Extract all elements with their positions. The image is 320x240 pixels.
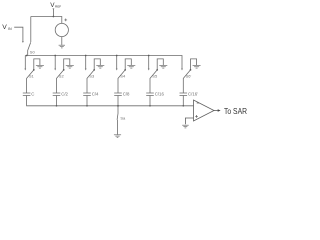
- svg-text:C/8: C/8: [123, 92, 130, 97]
- svg-text:V: V: [2, 24, 7, 31]
- svg-text:Sa: Sa: [120, 116, 126, 121]
- svg-text:S6': S6': [186, 74, 192, 79]
- svg-text:C/16': C/16': [188, 92, 198, 97]
- svg-text:IN: IN: [8, 27, 12, 31]
- svg-text:C/4: C/4: [92, 92, 99, 97]
- svg-text:To SAR: To SAR: [224, 106, 247, 116]
- svg-text:S5: S5: [152, 74, 158, 79]
- svg-text:S3: S3: [89, 74, 95, 79]
- svg-text:S1: S1: [29, 74, 35, 79]
- svg-text:S2: S2: [59, 74, 65, 79]
- svg-text:C/2: C/2: [61, 92, 68, 97]
- svg-text:S0: S0: [30, 49, 36, 54]
- svg-text:REF: REF: [55, 4, 61, 8]
- svg-text:C: C: [31, 92, 34, 97]
- svg-text:C/16: C/16: [155, 92, 165, 97]
- svg-text:S4: S4: [120, 74, 126, 79]
